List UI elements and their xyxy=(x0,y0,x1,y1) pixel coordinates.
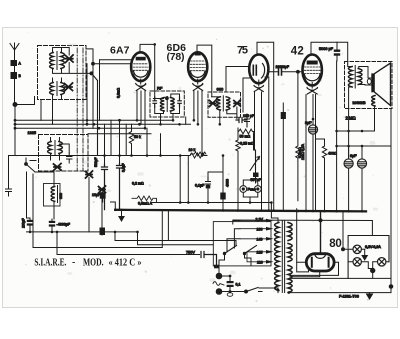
wire fono cap xyxy=(208,172,223,203)
wire 42 plate to output xyxy=(311,42,348,64)
IF T1 right trim capacitor xyxy=(178,97,182,107)
wire 6A7 osc leg xyxy=(144,91,146,128)
wire resistor chain right xyxy=(253,132,255,151)
svg-text:500pF: 500pF xyxy=(94,157,98,167)
main bus T1 xyxy=(152,202,272,204)
wire B+ upper horizontal xyxy=(337,130,375,132)
antenna xyxy=(10,43,19,60)
band switch S1b lower xyxy=(26,158,36,172)
power transformer core xyxy=(282,221,284,293)
wire to 6A7 signal grid xyxy=(100,59,132,61)
wire 80 anode left lower xyxy=(297,262,309,272)
svg-text:2,2V: 2,2V xyxy=(256,217,264,221)
node lamp feed xyxy=(342,248,345,251)
wire bus h3 xyxy=(15,127,144,129)
tuning gang link 2 (dash-dot) xyxy=(82,48,84,171)
wire bus h1 xyxy=(15,119,173,121)
wire switch to coil xyxy=(35,172,54,219)
wire OT primary bottom xyxy=(349,87,352,159)
wire L2 connections xyxy=(53,78,62,99)
wire plug upper lead xyxy=(222,276,230,281)
tube V2 stem xyxy=(197,79,199,84)
wire pot down to jack xyxy=(255,170,257,183)
tube V1 6A7 anode bar xyxy=(136,57,146,61)
svg-text:600: 600 xyxy=(59,193,63,199)
IF T1 primary coil xyxy=(160,98,164,112)
tube V4 42 base xyxy=(307,88,318,95)
svg-text:6A7: 6A7 xyxy=(110,45,130,57)
earth symbol mains xyxy=(227,292,233,297)
wire jack leads xyxy=(243,180,257,203)
main bus H1 heavy xyxy=(115,210,366,212)
tube V1 6A7 cathode arc xyxy=(134,71,148,77)
svg-text:M433/B: M433/B xyxy=(353,101,367,105)
wire bus B2 to lamp xyxy=(343,211,348,249)
tube V2 6D6 cathode arc xyxy=(190,71,205,77)
mains switch blade xyxy=(246,288,262,292)
capacitor electrolytic blob pot xyxy=(253,173,259,178)
tuning capacitor CV1 star xyxy=(66,55,74,63)
AVC bus wire xyxy=(9,155,208,157)
IF transformer T2 box (dashed) xyxy=(208,92,241,117)
wire 42 screen leg xyxy=(315,95,317,212)
svg-text:750V: 750V xyxy=(186,251,195,255)
svg-text:(78): (78) xyxy=(167,51,185,63)
core of T1 xyxy=(166,97,168,112)
wire vertical tuning cap drop 2 xyxy=(92,64,94,129)
wire 6D6 cathode leg xyxy=(193,91,195,120)
trimmer star mid xyxy=(86,171,93,178)
speaker box (dashed) xyxy=(345,62,393,109)
mains selector box xyxy=(213,222,271,266)
svg-text:110: 110 xyxy=(257,260,263,264)
wire T1 secondary bottom xyxy=(171,107,180,120)
svg-text:42: 42 xyxy=(291,46,304,58)
coupling capacitor 10000pF xyxy=(279,69,282,76)
capacitor C 4000pF xyxy=(49,219,55,232)
pilot lamp 2 xyxy=(353,258,361,266)
power transformer secondary HV xyxy=(288,223,292,293)
svg-text:0,25 mΩ: 0,25 mΩ xyxy=(240,142,254,146)
trimmer star lower xyxy=(99,186,106,193)
wire L1 top connections xyxy=(53,48,70,56)
tube V1 6A7 grid-cap hat wire xyxy=(140,44,155,98)
svg-text:6,3V-0,3A: 6,3V-0,3A xyxy=(365,245,381,249)
antenna series capacitor C1 xyxy=(11,61,17,66)
wire avc to cap x223 xyxy=(222,156,224,193)
svg-text:660: 660 xyxy=(217,87,224,92)
wire vertical drop x104.5 xyxy=(104,124,106,164)
node right edge xyxy=(389,285,393,289)
wire vertical drop x111 xyxy=(110,120,112,155)
wire bottom right bus lower xyxy=(230,287,391,293)
wire 80 plate feed xyxy=(320,211,322,254)
wire T1 secondary top xyxy=(171,94,180,98)
wire star mid drop xyxy=(88,178,90,232)
capacitor blob on x283 xyxy=(281,112,286,119)
resistor R 50k screen xyxy=(129,124,133,155)
phono jack right xyxy=(254,186,261,193)
capacitor C-ae left edge xyxy=(6,189,12,196)
tube V1 stem xyxy=(140,79,142,84)
power transformer primary winding xyxy=(275,223,279,291)
wire L3 top xyxy=(51,138,70,154)
tube V2 6D6 grid cap xyxy=(195,53,201,56)
node mains switch xyxy=(245,290,248,293)
capacitor C10uF left xyxy=(100,192,106,198)
wire to 6A7 grid 2 xyxy=(93,63,131,65)
svg-text:0,5mΩ: 0,5mΩ xyxy=(298,147,302,158)
tube V4 42 grids xyxy=(304,67,320,74)
wire 6A7 cathode leg xyxy=(136,91,138,120)
wire vertical drop x147 xyxy=(146,128,148,155)
tube V1 6A7 base xyxy=(136,84,146,91)
wire B+ horizontal to caps xyxy=(337,145,362,147)
svg-text:75: 75 xyxy=(237,45,248,57)
tube V3 75 base xyxy=(254,86,264,92)
svg-text:« 412 C »: « 412 C » xyxy=(109,258,142,269)
tube V2 6D6 base xyxy=(193,84,203,91)
speaker field coil bumps xyxy=(372,96,375,107)
tube V4 stem xyxy=(311,83,313,89)
tube V5 80 plates xyxy=(312,258,329,267)
core of output transformer xyxy=(354,66,356,89)
resistor R screen dropper horizontal xyxy=(191,152,206,156)
wire T1 primary top xyxy=(153,98,163,99)
svg-text:400Ω: 400Ω xyxy=(328,152,337,156)
IF T2 left trimmer star xyxy=(210,100,217,107)
svg-text:MOD.: MOD. xyxy=(83,258,104,269)
core of L3 xyxy=(54,141,56,155)
capacitor C4000 blob xyxy=(220,193,225,200)
capacitor 5000pF tone xyxy=(334,42,340,61)
node b+ upper dots xyxy=(335,130,363,133)
phono jack left xyxy=(240,186,247,193)
wire cap to bus xyxy=(222,200,224,211)
svg-text:5000 pF: 5000 pF xyxy=(319,47,334,51)
tube V2 6D6 grid-cap hat wire xyxy=(197,45,212,96)
capacitor electrolytic 8uF first xyxy=(308,125,317,134)
wire bus H1 left riser xyxy=(111,202,116,210)
svg-text:140: 140 xyxy=(257,238,263,242)
tube V2 6D6 envelope xyxy=(188,52,207,81)
wire field coil down xyxy=(374,106,376,109)
pilot lamp 1 xyxy=(353,245,361,253)
speaker magnet dot xyxy=(367,79,371,84)
antenna coil L1 primary xyxy=(50,53,54,69)
wire T1 primary bottom xyxy=(155,107,164,124)
speaker voice coil bar xyxy=(371,73,375,92)
svg-text:100 pF: 100 pF xyxy=(243,114,255,118)
wire vertical drop x185.7 xyxy=(185,117,187,124)
wire 80 anode left loop xyxy=(297,209,307,263)
wire antenna down lead xyxy=(14,66,16,105)
wire 6A7 grid leg xyxy=(140,91,142,124)
svg-text:S.I.A.R.E.: S.I.A.R.E. xyxy=(34,258,66,269)
resistor R 0.5M horizontal xyxy=(132,196,157,203)
resistor R grid 42 0.5M xyxy=(296,72,300,201)
wire bus h4 xyxy=(88,133,151,135)
wire right edge vertical xyxy=(362,109,391,287)
tube V4 42 envelope xyxy=(303,55,322,86)
wire 750V line xyxy=(57,232,200,255)
antenna coil assembly box (dashed) xyxy=(38,46,87,100)
svg-text:0,3mΩ: 0,3mΩ xyxy=(117,87,121,98)
svg-text:50 k: 50 k xyxy=(134,135,141,139)
capacitor C 5000pF avc xyxy=(102,164,108,210)
wire OT secondary to speaker xyxy=(359,67,371,86)
node T2 dot xyxy=(319,219,322,222)
resistor R cathode 42 xyxy=(322,139,326,211)
wire 75 leg2 xyxy=(261,92,263,210)
wire 75 to 42 grid xyxy=(268,71,303,73)
wire 6D6 screen leg xyxy=(197,91,199,124)
wire 75 cathode leg xyxy=(254,92,255,150)
selector switch blades xyxy=(225,246,257,254)
wire lamp connections xyxy=(348,249,389,268)
svg-text:F-1331-T06: F-1331-T06 xyxy=(339,295,359,299)
node antenna junction xyxy=(13,103,17,107)
tube V2 6D6 grids xyxy=(190,61,205,71)
capacitor fono blob xyxy=(206,185,211,189)
tube V1 6A7 envelope xyxy=(131,52,150,81)
wire screen feed x283 xyxy=(282,103,284,211)
wire L nest outer xyxy=(33,174,162,248)
wire left edge drop xyxy=(8,156,10,190)
capacitor mains 0.1 xyxy=(227,281,234,292)
wire right of 42 x306 xyxy=(305,95,307,211)
wire mains bottom xyxy=(222,288,278,292)
wire primary top riser xyxy=(271,203,278,223)
wire 80 filament down xyxy=(290,271,320,277)
svg-text:4000: 4000 xyxy=(226,179,230,187)
IF T1 secondary coil xyxy=(170,98,174,112)
wire transformer bottom to bus xyxy=(278,290,289,293)
resistor R-avc 10k xyxy=(190,153,204,158)
tube V5 80 envelope xyxy=(306,254,334,271)
pilot lamp 3 xyxy=(378,258,386,266)
core of L1 xyxy=(56,52,58,70)
svg-text:-4000pF: -4000pF xyxy=(57,223,71,227)
wire ant coil bottom drops xyxy=(41,100,53,125)
wire L nest inner xyxy=(115,211,236,246)
IF T2 secondary coil xyxy=(226,97,230,110)
oscillator padder capacitor xyxy=(67,153,73,163)
wire vertical drop x160.5 lower xyxy=(160,134,162,156)
node bus joints xyxy=(14,119,141,130)
svg-text:2 MΩ: 2 MΩ xyxy=(346,116,356,121)
oscillator coil L3 primary xyxy=(48,142,52,154)
wire cap3 chain xyxy=(361,146,363,211)
antenna coil L2 primary (band 2) xyxy=(50,83,54,95)
svg-text:0,1: 0,1 xyxy=(236,283,241,287)
tube V4 42 anode bar xyxy=(307,61,318,65)
tap arrows xyxy=(266,219,274,264)
tube V5 80 filament arc xyxy=(315,254,326,258)
ground arrow in lamp box xyxy=(362,249,367,260)
wire 8uF chain xyxy=(312,119,314,211)
antenna coil L1 secondary xyxy=(61,53,65,69)
wire 75 diode lead lower xyxy=(243,78,249,112)
bottom left band coil shield box xyxy=(44,184,61,207)
wire lamp return down xyxy=(372,271,374,279)
oscillator coil box (dashed) xyxy=(39,135,89,172)
output transformer primary xyxy=(348,67,352,88)
svg-text:80: 80 xyxy=(329,238,342,250)
node grid feed xyxy=(92,62,95,65)
antenna coil L2 secondary (band 2) xyxy=(61,83,65,95)
tube V3 75 envelope xyxy=(249,55,268,84)
oscillator coil L3 secondary xyxy=(59,142,63,154)
core of T2 xyxy=(222,96,224,111)
svg-text:0,5μF: 0,5μF xyxy=(122,163,126,172)
svg-text:10 k: 10 k xyxy=(189,148,196,152)
wire to antenna coil xyxy=(15,97,35,105)
band coil L4 xyxy=(51,187,55,202)
heater line T2 xyxy=(233,220,372,236)
scan speckle noise xyxy=(16,32,387,303)
antenna series capacitor C2 xyxy=(11,73,17,79)
capacitor C 750V xyxy=(201,252,217,267)
capacitor C 100pF bottom left xyxy=(27,172,34,232)
resistor R 50k horizontal xyxy=(239,129,254,134)
power transformer tap wires xyxy=(240,221,266,262)
mains plug pin upper xyxy=(216,273,222,279)
wire cap2 chain xyxy=(348,146,350,211)
capacitor C 0.1uF fono xyxy=(206,177,211,188)
trimmer capacitor star on L2 xyxy=(65,83,73,91)
core of L4 xyxy=(57,186,59,203)
trimmer star oscillator xyxy=(54,164,62,171)
IF T2 right trimmer star xyxy=(234,100,241,107)
svg-text:0,1μF: 0,1μF xyxy=(195,184,205,188)
wire tone cap down xyxy=(336,61,338,211)
tube V3 75 triode plate xyxy=(262,64,265,79)
resistor R 0.25M vertical xyxy=(236,128,240,210)
ground arrow below H1 xyxy=(119,210,124,221)
wire star lower drop xyxy=(101,193,103,228)
wire 75 diode lead upper xyxy=(226,67,249,93)
svg-text:10μF: 10μF xyxy=(92,193,101,197)
capacitor coupling pair top xyxy=(236,118,247,123)
svg-text:160: 160 xyxy=(257,227,263,231)
svg-text:0,2 mΩ: 0,2 mΩ xyxy=(132,182,144,186)
tube V1 6A7 grids xyxy=(133,64,148,71)
selector box corner block xyxy=(214,265,219,269)
wire 42 cathode leg xyxy=(312,95,314,120)
svg-text:8μF: 8μF xyxy=(350,154,357,158)
node selector dots xyxy=(223,252,246,255)
wire vertical tuning cap drop 1 xyxy=(86,64,88,125)
IF T2 primary coil xyxy=(217,97,221,110)
wire bus h2 xyxy=(15,123,191,125)
wire OT primary top xyxy=(348,64,352,67)
wire 80 right side xyxy=(292,262,339,275)
capacitor blob stack x102 xyxy=(100,228,106,236)
wire ant box to band switch xyxy=(86,49,93,64)
node 42 grid xyxy=(297,70,300,73)
svg-text:RF: RF xyxy=(157,86,163,91)
tube V3 stem xyxy=(258,80,260,86)
tuning gang link (dash-dot) xyxy=(76,48,78,171)
wire blob to wire xyxy=(101,232,103,235)
capacitor electrolytic 8uF third xyxy=(357,159,366,168)
mains plug pin lower xyxy=(216,289,222,295)
wire bottom right bus upper xyxy=(290,277,392,279)
svg-text:-: - xyxy=(72,257,75,268)
wire L3 bottom xyxy=(51,154,60,161)
wire 2,2V feed xyxy=(233,221,240,225)
wire 6D6 suppressor leg xyxy=(201,91,203,156)
wire L1 bottom connections xyxy=(53,63,92,74)
wire selector verticals xyxy=(227,229,240,252)
wire T2 primary top xyxy=(212,96,220,98)
node switch S1a xyxy=(90,72,93,75)
wire T2 bottoms xyxy=(220,107,237,124)
fuse squiggle xyxy=(213,282,224,286)
output transformer secondary xyxy=(358,69,362,85)
band switch S1a blade xyxy=(92,73,98,155)
core of L2 xyxy=(56,82,58,96)
tube V3 75 grid-cap hat wire xyxy=(257,42,274,210)
node switch S1b xyxy=(25,163,28,166)
tube V3 75 diode plates xyxy=(253,65,256,75)
capacitor electrolytic 8uF second xyxy=(344,159,353,168)
pilot lamp box top xyxy=(348,236,389,279)
node lamp return xyxy=(371,268,375,272)
svg-text:1925: 1925 xyxy=(28,131,36,135)
wire vertical drop x180 xyxy=(179,156,181,203)
wire vertical drop x119.5 xyxy=(119,120,121,163)
svg-text:125: 125 xyxy=(257,250,263,254)
svg-text:100μF: 100μF xyxy=(22,218,26,228)
IF transformer T1 box (dashed) xyxy=(150,91,184,117)
svg-text:0,5mΩ A: 0,5mΩ A xyxy=(138,202,153,206)
wire selector to plug xyxy=(219,254,251,274)
speaker cone xyxy=(375,63,391,106)
potentiometer volume xyxy=(250,150,260,171)
wire 42 cathode to resistor xyxy=(316,138,325,140)
capacitor C 0.1uF xyxy=(117,163,123,210)
wire c10 stubs xyxy=(102,188,104,202)
junction dots set xyxy=(15,43,363,294)
ground arrow bottom right xyxy=(367,293,373,299)
wire vertical drop x188 xyxy=(187,156,189,203)
wire 75 plate lead xyxy=(265,77,269,211)
wire vertical drop x126 xyxy=(125,124,127,155)
svg-text:50 mΩ: 50 mΩ xyxy=(240,135,251,139)
wire bottom left bus xyxy=(27,231,138,233)
wire field coil drop xyxy=(374,109,376,132)
IF T1 left trim capacitor xyxy=(153,97,157,107)
wire left column from antenna node xyxy=(14,105,16,156)
wire vertical drop x99 xyxy=(99,60,101,121)
capacitor 100pF below T2 xyxy=(245,114,250,127)
tube V4 42 cathode arc xyxy=(304,74,320,81)
